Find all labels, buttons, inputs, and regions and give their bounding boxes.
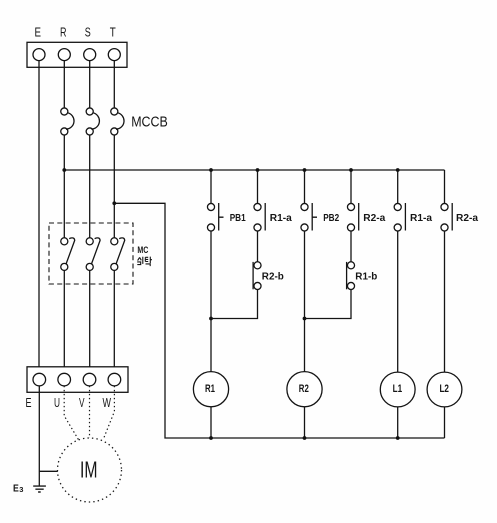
wire R1 to bottom rail [210, 407, 212, 438]
svg-text:R2-a: R2-a [363, 213, 385, 224]
node E (TB2 label) [26, 396, 32, 410]
pushbutton PB2 (a-contact) [301, 203, 317, 231]
svg-text:U: U [54, 396, 60, 410]
MCCB pole 1 (R phase) [61, 108, 74, 135]
svg-text:V: V [79, 396, 85, 410]
junction bottom col3 [303, 436, 307, 440]
svg-text:W: W [102, 396, 111, 410]
wire L1 to bottom rail [397, 407, 399, 438]
wire earth conductor TB2-E to ground [38, 386, 40, 486]
MC pole 3 [111, 238, 125, 271]
contact R1-a (holding) [254, 203, 265, 231]
junction rail col1 [209, 168, 213, 172]
wire motor frame bond [39, 470, 58, 472]
terminal TB2-V [83, 373, 96, 386]
wire rail to PB2 [304, 170, 306, 204]
wire rail to R2-a [350, 170, 352, 204]
wire rail to R1-a [257, 170, 259, 204]
label MC [137, 245, 148, 255]
junction rail col2 [256, 168, 260, 172]
label MCCB [131, 114, 168, 131]
svg-text:R2-b: R2-b [262, 271, 284, 282]
wire control return (T phase tap, left side + bottom rail) [114, 203, 444, 438]
pushbutton PB1 (a-contact) [207, 203, 223, 231]
label MC hangul (drawn strokes) [137, 257, 152, 267]
wire R1-a to L1 [397, 231, 399, 372]
junction merge col3 [303, 317, 307, 321]
svg-text:L2: L2 [439, 383, 449, 395]
svg-text:R2: R2 [299, 383, 309, 395]
contact R2-b (interlock) [253, 262, 261, 290]
lamp L2 [427, 372, 462, 407]
svg-text:L1: L1 [393, 383, 403, 395]
motor IM (dotted circle) [58, 438, 122, 502]
terminal TB2-E [33, 373, 46, 386]
terminal block TB2 body [27, 367, 128, 393]
terminal TB1-R [58, 49, 70, 61]
junction rail col4 [349, 168, 353, 172]
junction bottom col5 [396, 436, 400, 440]
MC pole 1 [61, 238, 75, 271]
node E (top phase label) [34, 25, 41, 39]
node V [79, 396, 85, 410]
relay coil R1 [193, 372, 228, 407]
label E3 [13, 483, 23, 494]
motor lead V (dotted) [89, 386, 91, 438]
wire MC pole2 to TB2-V [89, 270, 91, 373]
wire R1-a to R2-b [257, 231, 259, 262]
junction merge col1 [209, 317, 213, 321]
contact R1-a (lamp) [394, 203, 405, 231]
svg-text:IM: IM [80, 456, 98, 482]
contact R1-b (interlock) [347, 262, 355, 290]
svg-text:T: T [110, 25, 116, 39]
label R2-a lamp branch [456, 213, 478, 224]
wire rail to PB1 [210, 170, 212, 204]
svg-text:MC: MC [137, 245, 148, 255]
node R [60, 25, 67, 39]
wire E phase from TB1 down to TB2 [38, 61, 40, 373]
contact R2-a (holding) [347, 203, 358, 231]
wire T from MCCB to MC pole 3 [113, 135, 115, 238]
wire rail corner to R2-a lamp branch [444, 170, 446, 203]
svg-text:3: 3 [19, 485, 23, 494]
wire PB1 to merge node [210, 231, 212, 372]
motor lead U (dotted) [64, 386, 79, 441]
wire MC pole3 to TB2-W [113, 270, 115, 373]
svg-text:R1-a: R1-a [270, 213, 292, 224]
wire S from MCCB to MC pole 2 [89, 135, 91, 238]
wire R2-a to R1-b [350, 231, 352, 262]
svg-text:R1-b: R1-b [355, 271, 377, 282]
junction bottom col1 [209, 436, 213, 440]
wire R from TB1 to MCCB pole 1 [63, 61, 65, 108]
label R1-a lamp branch [410, 213, 432, 224]
node U [54, 396, 60, 410]
wire R2 to bottom rail [304, 407, 306, 438]
wire R1-b to merge [305, 290, 352, 319]
terminal block TB1 body [27, 42, 127, 67]
svg-text:R1-a: R1-a [410, 213, 432, 224]
label R1-b [355, 271, 377, 282]
wire R from MCCB to MC pole 1 [63, 135, 65, 238]
relay coil R2 [287, 372, 322, 407]
label PB2 [323, 213, 339, 224]
svg-text:R: R [60, 25, 67, 39]
wire rail to R1-a lamp branch [397, 170, 399, 204]
wire R2-a to L2 [444, 231, 446, 372]
contact R2-a (lamp) [441, 203, 452, 231]
wire S from TB1 to MCCB pole 2 [89, 61, 91, 108]
svg-text:E: E [34, 25, 41, 39]
svg-text:E: E [26, 396, 32, 410]
MCCB pole 3 (T phase) [111, 108, 124, 135]
junction T tap [112, 201, 116, 205]
wire PB2 to merge node [304, 231, 306, 372]
terminal TB2-U [58, 373, 71, 386]
terminal TB1-S [84, 49, 96, 61]
junction rail col5 [396, 168, 400, 172]
svg-text:E: E [13, 483, 19, 494]
contactor MC enclosure (dashed) [49, 223, 133, 284]
svg-text:S: S [85, 25, 91, 39]
svg-text:MCCB: MCCB [131, 114, 168, 131]
wire control feed rail (top rail, R phase) [64, 169, 444, 171]
label R2-a [363, 213, 385, 224]
wire MC pole1 to TB2-U [63, 270, 65, 373]
MC pole 2 [86, 238, 100, 271]
ground symbol E3 [33, 486, 46, 492]
terminal TB1-E [33, 49, 45, 61]
svg-text:PB2: PB2 [323, 213, 339, 224]
label PB1 [230, 213, 246, 224]
svg-text:R2-a: R2-a [456, 213, 478, 224]
junction rail col3 [303, 168, 307, 172]
MCCB pole 2 (S phase) [86, 108, 99, 135]
terminal TB2-W [108, 373, 121, 386]
terminal TB1-T [108, 49, 120, 61]
label R2-b [262, 271, 284, 282]
node W [102, 396, 111, 410]
svg-text:R1: R1 [205, 383, 215, 395]
svg-text:PB1: PB1 [230, 213, 246, 224]
node S [85, 25, 91, 39]
label R1-a [270, 213, 292, 224]
wire T from TB1 to MCCB pole 3 [113, 61, 115, 108]
node T [110, 25, 116, 39]
junction R tap [62, 168, 66, 172]
wire L2 to bottom rail [444, 407, 446, 438]
wire R2-b to merge [211, 290, 258, 319]
motor lead W (dotted) [103, 386, 114, 440]
lamp L1 [380, 372, 415, 407]
